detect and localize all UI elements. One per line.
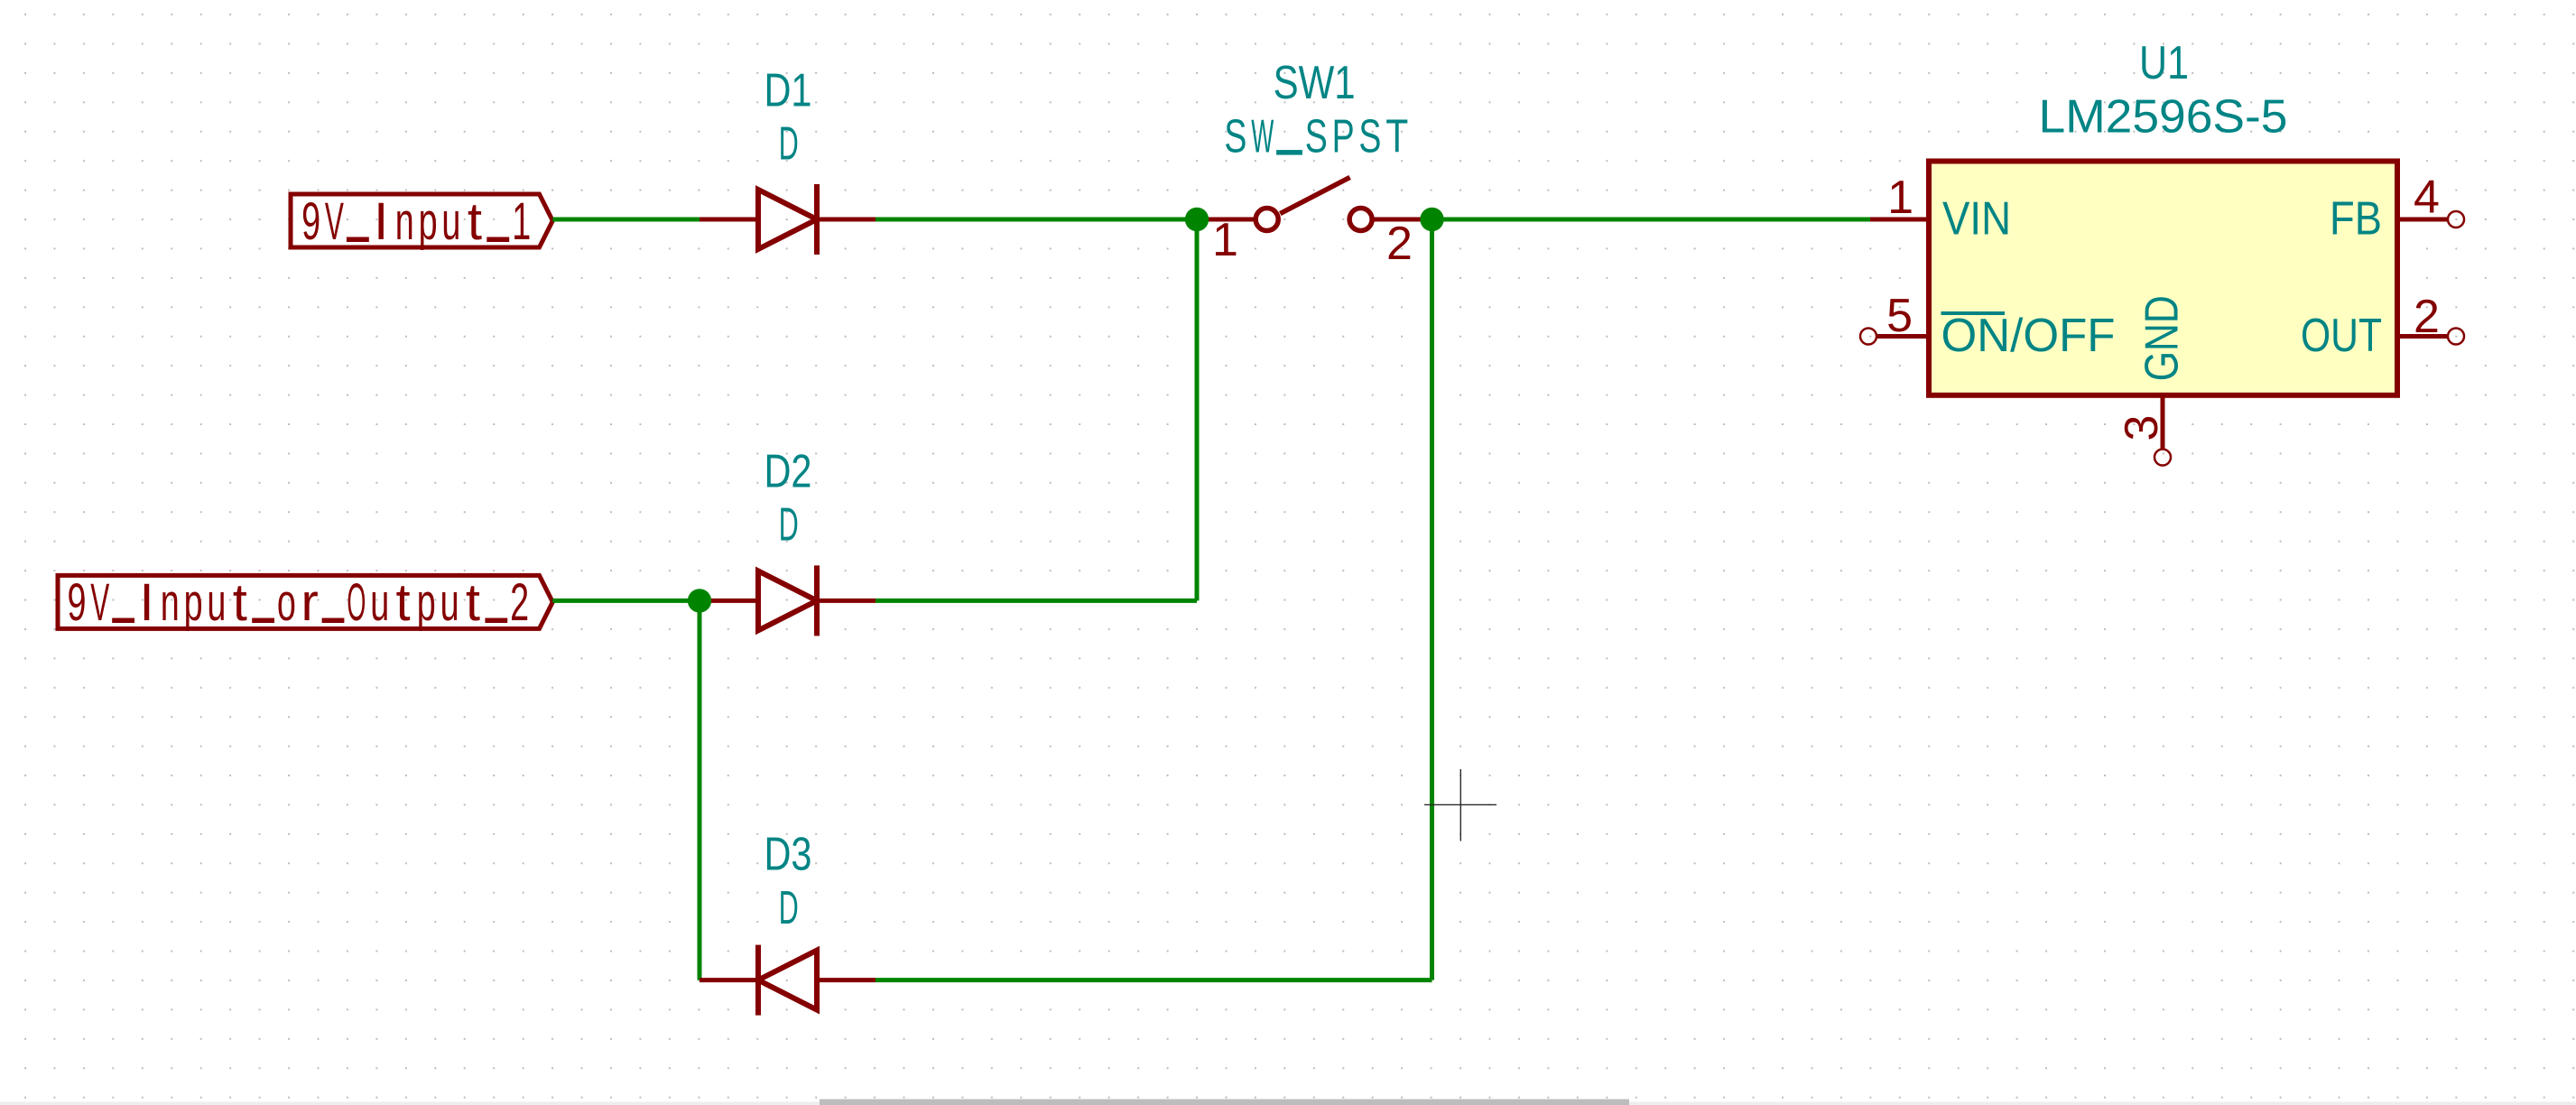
svg-text:4: 4 [2414, 171, 2440, 223]
IC U1 body [1929, 162, 2397, 395]
svg-text:o: o [277, 573, 296, 632]
wire right riser up [1430, 219, 1434, 980]
svg-text:V: V [90, 573, 109, 632]
svg-text:t: t [466, 573, 480, 632]
svg-text:VIN: VIN [1942, 193, 2011, 246]
junction J1 [1185, 208, 1209, 231]
svg-text:OUT: OUT [2301, 310, 2382, 362]
U1 pin 2 open end [2448, 329, 2464, 345]
svg-text:u: u [440, 573, 459, 632]
svg-text:u: u [207, 573, 226, 632]
svg-text:r: r [301, 573, 319, 632]
svg-text:t: t [468, 192, 482, 251]
svg-text:D2: D2 [764, 446, 812, 498]
svg-text:1: 1 [512, 192, 531, 251]
svg-text:u: u [441, 192, 460, 251]
wire label2 to junction3 [552, 599, 700, 603]
svg-text:9: 9 [301, 192, 320, 251]
svg-text:FB: FB [2330, 193, 2382, 246]
U1 pin 2 OUT lead [2397, 334, 2448, 339]
U1 pin 4 FB lead [2397, 218, 2448, 222]
U1 pin 5 ON/OFF lead [1876, 334, 1929, 339]
svg-text:2: 2 [2414, 291, 2440, 343]
switch SW1 lever [1280, 177, 1349, 213]
U1 pin 5 name overline [1941, 311, 2006, 315]
svg-text:P: P [1332, 111, 1355, 163]
diode D2 [700, 565, 876, 636]
U1 pin 5 open end [1860, 329, 1876, 345]
wire label1 to D1 [552, 218, 700, 222]
U1 pin 1 VIN lead [1870, 218, 1929, 222]
svg-text:T: T [1385, 111, 1408, 163]
wire junction1 down [1195, 219, 1200, 600]
junction J2 [1420, 208, 1443, 231]
switch SW1 pin 2 lead [1372, 218, 1432, 222]
svg-text:p: p [417, 573, 436, 632]
svg-text:V: V [325, 192, 344, 251]
svg-text:S: S [1224, 111, 1246, 163]
svg-text:1: 1 [1212, 214, 1238, 266]
svg-text:9: 9 [68, 573, 87, 632]
svg-text:2: 2 [1386, 218, 1413, 270]
svg-text:D: D [779, 499, 799, 552]
global label 9V_Input_or_Output_2 [58, 575, 552, 628]
svg-text:ON/OFF: ON/OFF [1941, 310, 2116, 362]
wire junction3 down [698, 600, 702, 980]
svg-text:I: I [139, 573, 153, 632]
wire D1 to switch junction [876, 218, 1197, 222]
svg-text:GND: GND [2136, 295, 2189, 381]
svg-text:U1: U1 [2139, 37, 2189, 89]
svg-text:S: S [1305, 111, 1328, 163]
scrollbar track [0, 1102, 2576, 1105]
switch SW1 contact B [1349, 209, 1372, 231]
svg-text:1: 1 [1887, 172, 1913, 224]
wire down-leg to D2 [876, 599, 1197, 603]
svg-text:LM2596S-5: LM2596S-5 [2039, 91, 2288, 144]
svg-text:n: n [395, 192, 414, 251]
svg-text:S: S [1358, 111, 1381, 163]
svg-text:n: n [161, 573, 180, 632]
cursor crosshair [1424, 769, 1496, 841]
svg-text:3: 3 [2116, 415, 2168, 441]
global label 9V_Input_1 [291, 194, 552, 247]
wire D3 to right riser [876, 978, 1432, 982]
U1 pin 4 open end [2448, 211, 2464, 227]
wire junction2 to U1 VIN [1432, 218, 1871, 222]
diode D3 [700, 945, 876, 1016]
scrollbar thumb [820, 1100, 1629, 1105]
svg-text:SW1: SW1 [1274, 57, 1356, 109]
svg-text:D1: D1 [764, 65, 812, 117]
U1 pin 3 open end [2154, 450, 2171, 466]
svg-text:t: t [233, 573, 247, 632]
switch SW1 pin 1 lead [1197, 218, 1256, 222]
svg-text:O: O [347, 573, 366, 632]
svg-text:p: p [184, 573, 203, 632]
svg-text:W: W [1251, 111, 1274, 163]
U1 pin 3 GND lead [2161, 395, 2165, 450]
switch SW1 contact A [1256, 209, 1278, 231]
junction J3 [688, 589, 711, 612]
diode D1 [700, 184, 876, 255]
svg-text:t: t [395, 573, 410, 632]
svg-text:I: I [374, 192, 388, 251]
svg-text:p: p [419, 192, 438, 251]
svg-text:D: D [779, 882, 799, 934]
svg-text:u: u [370, 573, 389, 632]
svg-text:5: 5 [1886, 290, 1913, 342]
svg-text:2: 2 [510, 573, 529, 632]
svg-text:D3: D3 [764, 829, 812, 881]
svg-text:D: D [779, 118, 799, 171]
